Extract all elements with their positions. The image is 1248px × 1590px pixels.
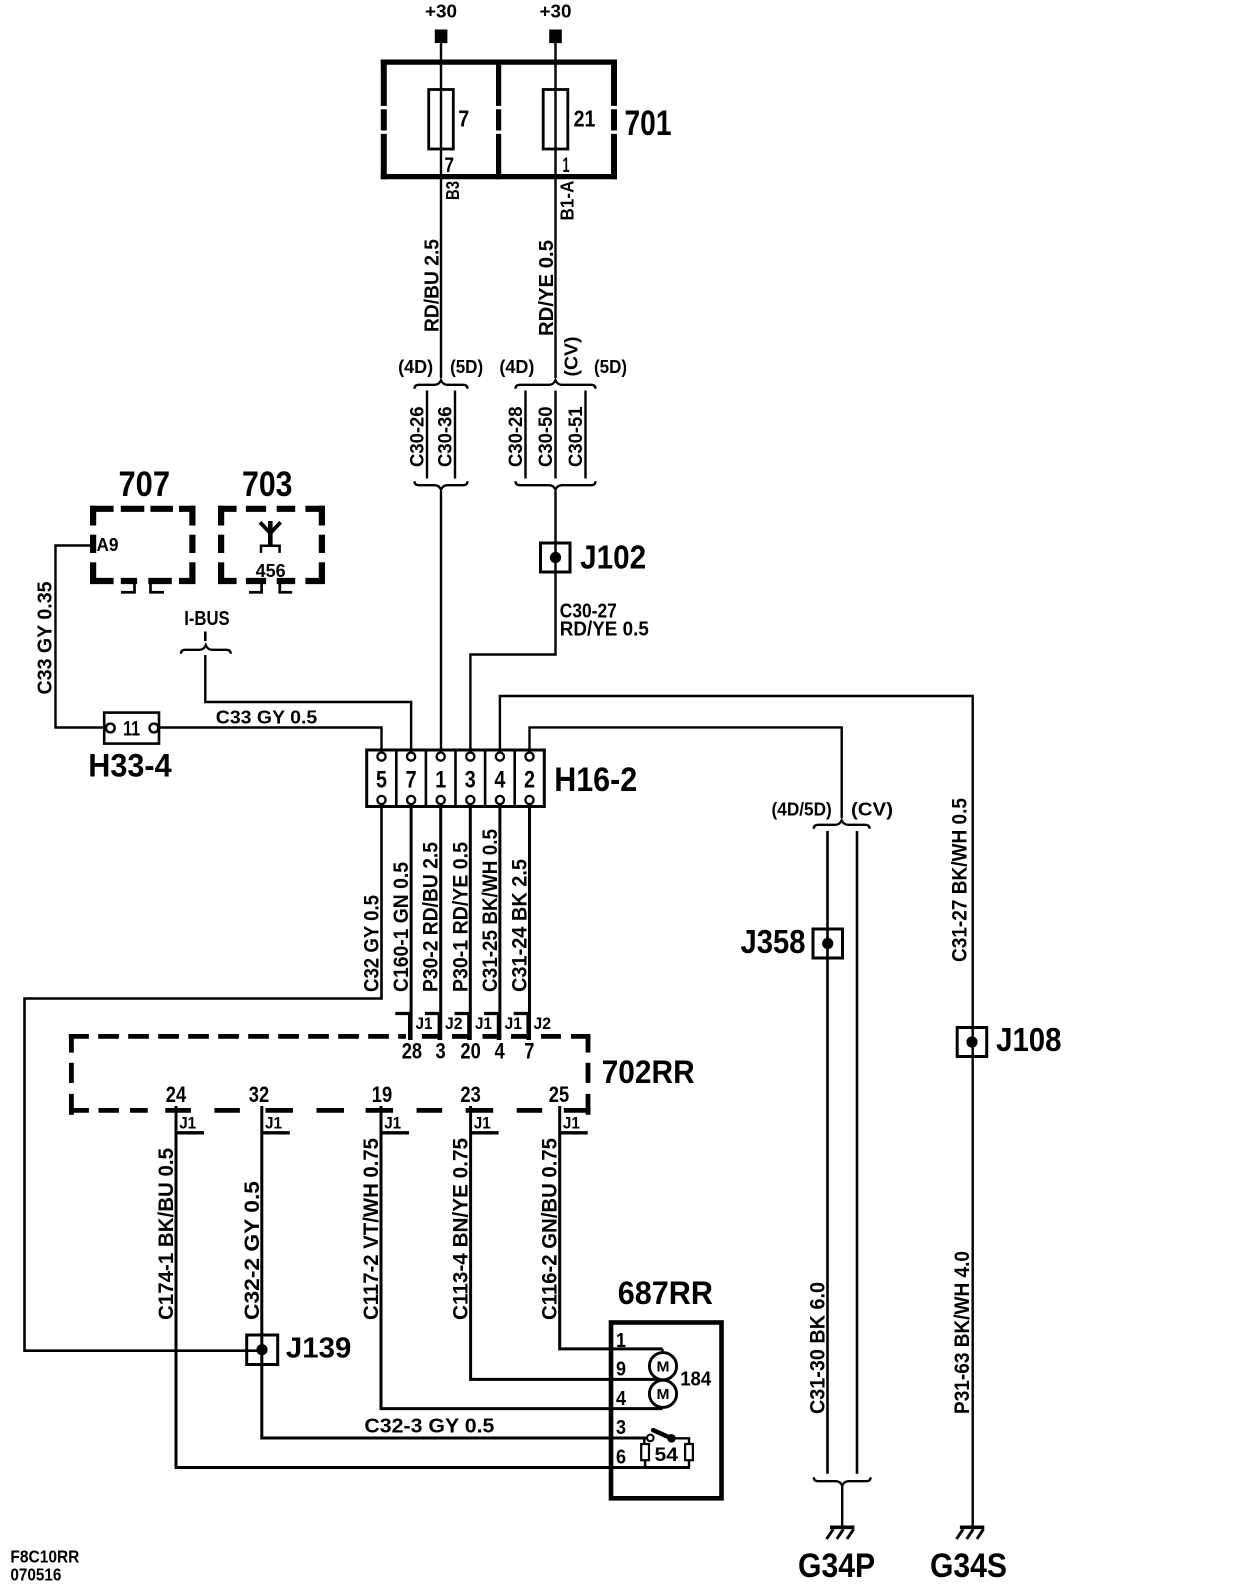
wire from H16-2 pin 4 to J108/G34S [500, 696, 973, 1528]
switch 54 right terminal [685, 1444, 693, 1460]
motor M upper (184) [649, 1353, 676, 1380]
svg-text:2: 2 [524, 767, 535, 794]
svg-text:54: 54 [655, 1444, 679, 1466]
svg-text:J1: J1 [384, 1115, 401, 1133]
svg-text:H33-4: H33-4 [88, 747, 171, 783]
fuse holder box 701 (dashed) [381, 59, 617, 64]
svg-text:P30-1 RD/YE 0.5: P30-1 RD/YE 0.5 [449, 842, 472, 992]
svg-text:(4D): (4D) [499, 357, 534, 377]
svg-text:4: 4 [494, 767, 506, 794]
svg-text:C160-1 GN 0.5: C160-1 GN 0.5 [390, 862, 413, 992]
component box 707 (dashed) [90, 506, 114, 512]
svg-text:J102: J102 [580, 539, 646, 576]
pin bracket 702RR-28 [395, 1014, 409, 1041]
branch wire C30-36 [454, 391, 456, 479]
splice J139 box [247, 1335, 278, 1365]
svg-text:+30: +30 [540, 2, 572, 22]
switch 54 contact circle [647, 1435, 654, 1442]
svg-text:C32 GY 0.5: C32 GY 0.5 [361, 895, 384, 992]
wire 702RR pin32 through J139 to 687RR pin3 (C32-2/C32-3) [262, 1106, 647, 1438]
connector H33-4 right terminal [150, 724, 159, 733]
svg-text:7: 7 [445, 154, 455, 177]
svg-text:C113-4 BN/YE 0.75: C113-4 BN/YE 0.75 [450, 1138, 473, 1320]
wire CV branch to G34P [856, 831, 859, 1474]
svg-text:184: 184 [680, 1369, 712, 1391]
svg-text:C174-1 BK/BU 0.5: C174-1 BK/BU 0.5 [155, 1148, 178, 1320]
branch brace top (right group) [516, 380, 596, 389]
branch wire C30-51 [584, 391, 586, 479]
switch 54 right stub to pin6 wire [688, 1460, 690, 1467]
svg-text:3: 3 [616, 1417, 626, 1439]
continuation feet under 707 [121, 591, 136, 594]
wire 702RR pin19 to 687RR pin4 (C117-2) [381, 1106, 663, 1409]
pin tick 702RR-19 [380, 1131, 409, 1134]
svg-text:C117-2 VT/WH 0.75: C117-2 VT/WH 0.75 [360, 1138, 383, 1320]
svg-text:F8C10RR: F8C10RR [10, 1546, 79, 1566]
svg-text:C31-24 BK 2.5: C31-24 BK 2.5 [509, 859, 532, 992]
continuation feet under 703 [249, 591, 263, 594]
svg-text:C116-2 GN/BU 0.75: C116-2 GN/BU 0.75 [539, 1138, 562, 1320]
svg-text:C30-28: C30-28 [506, 407, 527, 468]
wire H16-2 pin5 to J139 feed (C32 GY 0.5) [25, 804, 382, 1351]
svg-text:(4D): (4D) [398, 357, 433, 377]
pin bracket 702RR-20 [455, 1014, 469, 1041]
power feed +30 (right) terminal square [549, 30, 562, 44]
svg-text:28: 28 [402, 1039, 422, 1064]
wire from +30 left terminal to fusebox [440, 43, 442, 66]
svg-text:1: 1 [616, 1330, 626, 1352]
svg-text:7: 7 [458, 106, 469, 132]
ECU box 702RR (dashed) [69, 1034, 89, 1039]
svg-text:J2: J2 [445, 1015, 463, 1033]
svg-text:707: 707 [119, 465, 171, 504]
svg-text:C30-36: C30-36 [435, 407, 456, 468]
wire H16-2 pin3 to 702RR pin20 [469, 804, 472, 1040]
pin tick 702RR-24 [175, 1131, 204, 1134]
svg-text:702RR: 702RR [602, 1054, 695, 1090]
wire through fuse 7 (inside) [440, 90, 442, 149]
wire H16-2 pin2 to 702RR pin7 [528, 804, 531, 1040]
svg-text:J1: J1 [563, 1115, 580, 1133]
wire 4D/5D branch to G34P [826, 831, 829, 1474]
body variant brace [814, 820, 870, 829]
svg-text:21: 21 [574, 106, 596, 132]
svg-text:RD/YE 0.5: RD/YE 0.5 [560, 619, 649, 641]
splice J102 box [541, 543, 571, 572]
wire 702RR pin23 to 687RR pin9 (C113-4) [471, 1106, 663, 1379]
connector H33-4 left terminal [106, 724, 115, 733]
svg-text:C30-26: C30-26 [407, 407, 428, 468]
svg-text:C33 GY 0.5: C33 GY 0.5 [216, 707, 317, 728]
svg-text:3: 3 [436, 1039, 446, 1064]
svg-text:J1: J1 [475, 1015, 492, 1033]
svg-text:32: 32 [249, 1082, 269, 1107]
wire C33 GY 0.5 from H33-4 to H16-2 pin 5 [159, 728, 382, 754]
svg-text:703: 703 [242, 465, 293, 504]
wire I-BUS to H16-2 pin 7 [205, 655, 411, 753]
motor M lower (184) [649, 1380, 676, 1407]
svg-text:J2: J2 [534, 1015, 552, 1033]
branch brace bottom (left group) [415, 481, 468, 490]
switch 54 pivot dot [667, 1434, 676, 1443]
wire RD/YE down to splice J102 [554, 491, 556, 560]
svg-text:24: 24 [166, 1082, 187, 1107]
svg-text:J108: J108 [996, 1021, 1061, 1058]
svg-text:J1: J1 [265, 1115, 282, 1133]
svg-text:+30: +30 [425, 2, 457, 22]
unit box 687RR [611, 1323, 722, 1499]
svg-text:M: M [657, 1387, 670, 1403]
svg-text:070516: 070516 [10, 1565, 61, 1585]
svg-text:5: 5 [376, 767, 387, 794]
wire from +30 right terminal to fusebox [554, 43, 556, 66]
splice J108 box [957, 1028, 987, 1057]
branch wire C30-28 [524, 391, 526, 479]
wire 702RR pin25 to 687RR pin1 (C116-2) [560, 1106, 663, 1349]
switch 54 lever [653, 1430, 671, 1438]
switch 54 stub pin3 to left terminal [643, 1438, 645, 1445]
power feed +30 (left) terminal square [435, 30, 448, 44]
svg-text:(5D): (5D) [450, 357, 483, 377]
splice J108 dot [966, 1036, 977, 1047]
svg-text:C33 GY 0.35: C33 GY 0.35 [34, 582, 56, 695]
svg-text:P31-63 BK/WH 4.0: P31-63 BK/WH 4.0 [951, 1251, 974, 1414]
pin tick 702RR-23 [470, 1131, 499, 1134]
svg-text:J1: J1 [416, 1015, 433, 1033]
svg-text:19: 19 [372, 1082, 392, 1107]
svg-text:3: 3 [465, 767, 476, 794]
svg-text:C32-3 GY 0.5: C32-3 GY 0.5 [364, 1415, 494, 1437]
branch wire C30-26 [426, 391, 428, 479]
svg-text:C31-27 BK/WH 0.5: C31-27 BK/WH 0.5 [948, 798, 971, 962]
wire through fuse 21 [554, 60, 556, 175]
branch brace bottom (right group) [516, 481, 596, 490]
svg-text:701: 701 [625, 104, 672, 143]
wire B3 from fuse 7 [440, 179, 442, 378]
svg-text:456: 456 [256, 560, 286, 581]
wire through fuse 7 [440, 60, 442, 175]
svg-text:C30-50: C30-50 [536, 407, 557, 468]
svg-text:H16-2: H16-2 [554, 761, 637, 799]
connector H16-2 body [367, 750, 545, 807]
svg-text:B3: B3 [443, 181, 463, 200]
svg-text:(CV): (CV) [562, 337, 582, 377]
svg-text:G34P: G34P [798, 1547, 875, 1585]
splice J139 dot [256, 1344, 267, 1355]
svg-text:C31-30 BK 6.0: C31-30 BK 6.0 [807, 1282, 830, 1414]
svg-text:B1-A: B1-A [557, 181, 577, 221]
svg-text:P30-2 RD/BU 2.5: P30-2 RD/BU 2.5 [420, 842, 443, 992]
wire from merge brace to ground G34P [841, 1487, 843, 1528]
component box 703 (dashed) [218, 506, 237, 512]
pin tick 702RR-25 [559, 1131, 588, 1134]
svg-text:20: 20 [460, 1039, 480, 1064]
svg-text:RD/BU 2.5: RD/BU 2.5 [422, 239, 444, 332]
svg-text:J358: J358 [741, 923, 806, 960]
svg-text:23: 23 [460, 1082, 480, 1107]
svg-text:687RR: 687RR [618, 1275, 713, 1311]
svg-text:C32-2 GY 0.5: C32-2 GY 0.5 [241, 1181, 264, 1320]
svg-text:J139: J139 [286, 1333, 351, 1365]
pin bracket 702RR-4 [484, 1014, 498, 1041]
wire B1-A from fuse 21 [554, 179, 556, 378]
merge brace above G34P [814, 1477, 871, 1486]
wire H16-2 pin7 to 702RR pin28 [410, 804, 413, 1040]
svg-text:(4D/5D): (4D/5D) [772, 800, 832, 820]
svg-text:7: 7 [524, 1039, 534, 1064]
antenna symbol in 703 [268, 521, 273, 546]
wire H16-2 pin4 to 702RR pin4 [498, 804, 501, 1040]
fuse 7 body [429, 90, 454, 150]
connector H33-4 box [104, 713, 159, 744]
wire RD/BU to H16-2 pin 1 [440, 491, 442, 753]
svg-text:M: M [657, 1359, 670, 1375]
svg-text:J1: J1 [474, 1115, 491, 1133]
splice J102 dot [550, 552, 561, 563]
svg-text:J1: J1 [505, 1015, 523, 1033]
svg-text:I-BUS: I-BUS [184, 608, 230, 630]
fuse 21 body [543, 90, 568, 150]
svg-text:6: 6 [616, 1446, 626, 1468]
branch wire C30-50 [554, 391, 556, 479]
wire 687RR pin1 to motor [661, 1349, 663, 1354]
svg-text:4: 4 [616, 1388, 627, 1410]
wire 702RR pin24 to 687RR pin6 (C174-1) [176, 1106, 690, 1468]
svg-text:(CV): (CV) [851, 800, 893, 820]
switch 54 left stub to pin6 wire [644, 1460, 646, 1467]
svg-text:C31-25 BK/WH 0.5: C31-25 BK/WH 0.5 [479, 829, 502, 992]
svg-text:RD/YE 0.5: RD/YE 0.5 [536, 240, 558, 336]
pin tick 702RR-32 [261, 1131, 290, 1134]
svg-text:11: 11 [123, 718, 140, 741]
splice J358 box [813, 929, 843, 958]
svg-text:7: 7 [406, 767, 417, 794]
switch 54 wire to right terminal [672, 1438, 690, 1444]
branch brace top (left group) [415, 380, 468, 389]
switch 54 left terminal [641, 1444, 649, 1460]
pin bracket 702RR-7 [514, 1014, 528, 1041]
svg-text:1: 1 [435, 767, 446, 794]
wire from pin A9 of 707 [56, 546, 105, 728]
wire through fuse 21 (inside) [554, 90, 556, 149]
svg-text:9: 9 [616, 1358, 626, 1380]
I-BUS dashed stub [204, 632, 207, 642]
wire C30-27 from J102 to H16-2 pin 3 [470, 555, 555, 753]
svg-text:25: 25 [549, 1082, 569, 1107]
I-BUS brace [181, 645, 231, 654]
wire from H16-2 pin 2 to body brace [530, 727, 842, 818]
svg-text:1: 1 [563, 154, 570, 177]
wire H16-2 pin1 to 702RR pin3 [439, 804, 442, 1040]
splice J358 dot [822, 938, 833, 949]
svg-text:4: 4 [495, 1039, 506, 1064]
svg-text:J1: J1 [179, 1115, 196, 1133]
pin bracket 702RR-3 [425, 1014, 439, 1041]
ground symbol G34S [960, 1526, 984, 1530]
svg-text:A9: A9 [97, 535, 119, 555]
svg-text:C30-51: C30-51 [566, 406, 587, 467]
svg-text:(5D): (5D) [594, 357, 627, 377]
ground symbol G34P [830, 1526, 854, 1530]
svg-text:G34S: G34S [930, 1547, 1007, 1585]
connector H16-2 bottom terminals [377, 796, 385, 804]
connector H16-2 top terminals [377, 753, 385, 761]
